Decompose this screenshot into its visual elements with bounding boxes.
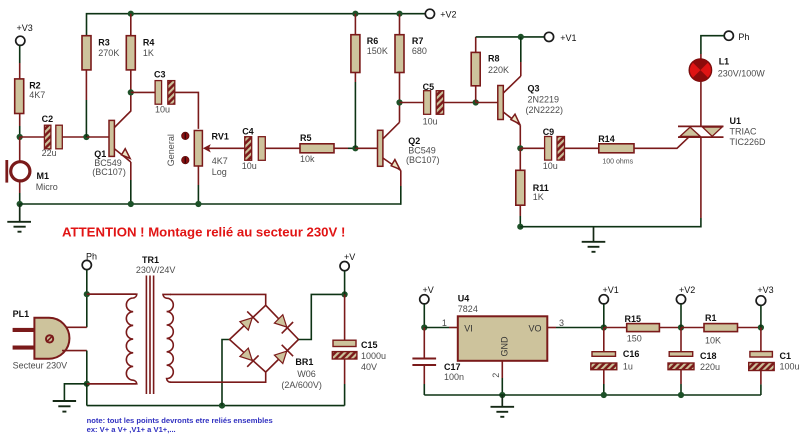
junction node G Q3e/C9/R11 [517,145,523,151]
svg-text:1: 1 [442,318,447,328]
svg-text:(BC107): (BC107) [92,167,126,177]
wire to mains ground [64,384,86,401]
capacitor C4 10u [242,126,265,171]
wire TR1 primary bottom [87,383,136,385]
transformer TR1 core [146,276,153,395]
resistor R1 10K [681,313,761,346]
svg-text:Q3: Q3 [528,83,540,93]
wire U4 VO to +V1 [547,327,604,329]
transformer TR1 secondary coil [163,294,173,382]
wire U4 pin2 to ground [501,361,503,395]
capacitor C5 10u [423,82,444,127]
wire node B to Q1 base [86,136,109,138]
regulator U4 7824 [458,294,548,361]
wire R11 to bottom rail [519,205,521,227]
wire bus to R7 [399,14,401,35]
wire +V to U4 VI [424,327,458,329]
transformer TR1 primary coil [87,294,137,384]
wire bus to R4 [130,14,132,36]
wire +V3 to R2 [19,45,21,79]
resistor R5 10k [300,133,334,164]
svg-text:General: General [166,134,176,166]
wire R2 to node A [19,114,21,138]
capacitor C3 10u [154,70,175,115]
junction bus/R6 [352,11,358,17]
svg-text:VI: VI [464,324,473,334]
wire node E to C5 [400,102,424,104]
svg-text:TRIAC: TRIAC [730,127,758,137]
svg-text:C9: C9 [543,127,555,137]
ground mains [53,401,76,412]
svg-text:+V2: +V2 [440,9,456,19]
junction +V1/Q3 collector [518,34,524,40]
wire +V1 line [476,36,545,38]
resistor R4 1K [126,36,154,70]
wire R8 top pin [475,37,477,53]
junction bottom rail/R11 [517,224,523,230]
svg-text:U4: U4 [458,294,470,304]
capacitor C2 22u [42,114,63,158]
wire Q3 collector [520,37,522,76]
junction rail/C16 [601,392,607,398]
wire R6 to node D [354,73,356,149]
svg-text:BR1: BR1 [295,357,313,367]
wire Q2 emitter to rail [400,171,402,205]
wire R14 to triac gate [634,137,689,148]
wire +V2 top bus [87,14,426,36]
svg-text:10k: 10k [300,154,315,164]
svg-text:Ph: Ph [86,252,97,262]
svg-text:Log: Log [212,167,227,177]
svg-text:+V1: +V1 [560,33,576,43]
svg-text:+V3: +V3 [757,285,773,295]
wire node A to C2 [20,136,45,138]
svg-text:2N2219: 2N2219 [528,94,560,104]
wire emitter ground rail [20,203,401,205]
transistor Q2 BC549 [378,122,440,170]
svg-text:Ph: Ph [738,32,749,42]
svg-text:C16: C16 [623,349,640,359]
svg-text:+V1: +V1 [603,285,619,295]
wire bottom rail left section [87,405,345,407]
svg-text:10K: 10K [705,335,721,345]
bridge rectifier BR1 W06 [230,305,322,390]
node +V1 terminal bottom [599,285,619,328]
wire Ph to lamp [701,36,724,60]
svg-text:1u: 1u [623,361,633,371]
junction Ph/TR1 primary [84,291,90,297]
junction node A R2/C2/M1 [17,134,23,140]
svg-text:VO: VO [529,324,542,334]
svg-text:R3: R3 [98,37,110,47]
svg-text:PL1: PL1 [13,309,30,319]
svg-text:L1: L1 [719,57,730,67]
svg-text:230V/24V: 230V/24V [136,265,176,275]
ground center [582,227,606,252]
svg-text:10u: 10u [543,161,558,171]
node +V terminal right [420,285,434,304]
wire C3 to RV1 [175,92,199,128]
svg-text:+V2: +V2 [679,285,695,295]
svg-text:+V: +V [344,252,355,262]
svg-text:TIC226D: TIC226D [730,137,767,147]
wire node D to Q2 base [355,147,377,149]
wire Q1 emitter to rail [130,162,132,204]
wire R7 to Q2 collector [399,73,401,123]
svg-text:10u: 10u [242,161,257,171]
wire +V terminal down [423,304,425,328]
svg-text:C2: C2 [42,114,54,124]
wire C5 to node F [444,102,476,104]
wire bus to R6 [354,14,356,35]
transistor Q1 BC549 [92,111,131,177]
svg-text:ATTENTION ! Montage relié au s: ATTENTION ! Montage relié au secteur 230… [62,224,345,239]
svg-text:7824: 7824 [458,304,478,314]
wire PL1 bottom pin [62,351,87,384]
junction +V3 node [758,324,764,330]
junction rail/pin2 [499,392,505,398]
microphone M1 [7,160,58,192]
resistor R8 220K [471,52,509,85]
wire node C to C3 [131,91,155,93]
junction rail left [17,201,23,207]
svg-text:C5: C5 [423,82,435,92]
junction bus/R7 [396,11,402,17]
resistor R15 150 [604,314,681,344]
svg-text:+V: +V [423,285,434,295]
wire R4 to Q1 collector [130,70,132,112]
junction node E R7/Q2/C5 [396,99,402,105]
svg-text:10u: 10u [423,116,438,126]
svg-text:100u: 100u [780,362,800,372]
svg-text:W06: W06 [297,369,316,379]
ground left [7,204,31,232]
node +V3 terminal top-left [16,23,33,46]
wire R3 to node B [85,70,87,137]
junction rail/RV1 [195,201,201,207]
svg-text:1K: 1K [143,48,154,58]
node Ph terminal mains [82,252,97,270]
svg-text:R2: R2 [29,81,41,91]
wire R8 to node F [475,86,477,103]
junction node D R5/R6/Q2-base [352,145,358,151]
junction +V2 node [678,324,684,330]
svg-text:BC549: BC549 [408,146,436,156]
node +V2 terminal [425,9,456,19]
capacitor C1 100u [749,328,800,396]
svg-text:R8: R8 [488,53,500,63]
wire C4 to R5 [265,147,300,149]
wire TR1 secondary top to BR1 [170,294,266,305]
wire bridge minus to rail [222,340,230,406]
transformer TR1 labels [136,255,176,275]
svg-text:C17: C17 [444,362,461,372]
junction +V node left [342,291,348,297]
svg-text:220K: 220K [488,65,509,75]
lamp L1 230V/100W [689,57,765,82]
svg-text:GND: GND [500,336,510,357]
junction mains return [84,381,90,387]
svg-text:(BC107): (BC107) [406,155,440,165]
resistor R7 680 [395,35,427,73]
svg-text:1000u: 1000u [361,351,386,361]
svg-text:R4: R4 [143,37,155,47]
svg-text:R6: R6 [367,36,379,46]
svg-text:22u: 22u [42,148,57,158]
junction node C R4/C3/Q1 [128,89,134,95]
svg-text:(2A/600V): (2A/600V) [281,380,322,390]
wire RV1 to rail [197,165,199,204]
capacitor C15 1000u 40V [332,294,386,405]
svg-text:(2N2222): (2N2222) [526,105,564,115]
svg-text:R14: R14 [598,134,615,144]
wire Q3 emitter to node G [519,125,521,148]
transistor Q3 2N2219 [498,76,563,125]
svg-text:3: 3 [559,318,564,328]
node +V terminal left [340,252,355,271]
svg-text:4K7: 4K7 [212,156,228,166]
wire bridge plus to +V node [299,294,345,339]
svg-text:note: tout les points devronts: note: tout les points devronts etre reli… [87,416,273,425]
wire node A to M1 [19,137,21,162]
wire bottom rail to triac [520,226,701,228]
svg-text:1K: 1K [533,192,544,202]
junction bus/R4 [128,11,134,17]
svg-text:10u: 10u [155,105,170,115]
triac U1 TIC226D [678,116,766,147]
svg-text:40V: 40V [361,362,377,372]
resistor R11 1K [516,170,549,205]
svg-text:C18: C18 [700,351,717,361]
wire M1 to ground rail [19,181,21,204]
wire node F to Q3 base [476,102,498,104]
junction node F C5/R8/Q3-base [473,99,479,105]
wire PL1 top pin [62,326,87,328]
wire junction to bottom rail [86,384,88,406]
junction rail/Q1 emitter [128,201,134,207]
svg-text:ex: V+ a V+ ,V1+ a V1+,...: ex: V+ a V+ ,V1+ a V1+,... [87,425,176,434]
wire C2 to node B [62,136,86,138]
svg-text:C15: C15 [361,340,378,350]
wire +V terminal to junction [344,271,346,295]
svg-text:R1: R1 [705,313,717,323]
resistor R2 4K7 [15,79,46,114]
svg-text:+V3: +V3 [17,23,33,33]
resistor R6 150K [351,35,388,73]
wire Ph down to PL1 [86,270,88,328]
junction rail/C18 [678,392,684,398]
svg-text:C3: C3 [154,70,166,80]
capacitor C18 220u [668,328,720,396]
svg-text:220u: 220u [700,362,720,372]
wire bottom rail right section [424,394,761,396]
node +V3 terminal bottom [756,285,774,328]
potentiometer RV1 4K7 Log [166,131,245,177]
svg-text:270K: 270K [98,48,119,58]
junction node B C2/R3/Q1-base [83,134,89,140]
svg-text:680: 680 [412,46,427,56]
mains plug PL1 [13,309,70,371]
svg-text:TR1: TR1 [142,255,159,265]
wire R5 to node D [334,147,355,149]
svg-text:R15: R15 [625,314,642,324]
svg-text:100n: 100n [444,372,464,382]
wire triac MT1 to rail [700,137,702,227]
svg-text:M1: M1 [37,171,50,181]
wire TR1 secondary bottom to BR1 [170,372,266,382]
junction rail/bridge minus [219,403,225,409]
svg-text:230V/100W: 230V/100W [718,69,766,79]
ground U4 [491,395,515,417]
junction +V/C17/U4 [421,324,427,330]
svg-text:100 ohms: 100 ohms [602,159,633,166]
node +V1 terminal [544,32,576,43]
junction +V1 node [601,324,607,330]
wire junction to TR1 primary top [87,293,136,295]
svg-text:Secteur 230V: Secteur 230V [13,361,68,371]
svg-text:150: 150 [627,334,642,344]
svg-text:RV1: RV1 [212,131,229,141]
svg-text:150K: 150K [367,46,388,56]
wire node G to C9 [520,147,544,149]
svg-text:2: 2 [491,373,501,378]
resistor R3 270K [82,36,119,70]
svg-text:C1: C1 [780,351,792,361]
capacitor C16 1u [591,328,640,396]
svg-text:U1: U1 [730,116,742,126]
svg-text:R7: R7 [412,36,424,46]
node +V2 terminal bottom [676,285,695,328]
wire C9 to R14 [565,147,599,149]
capacitor C9 10u [543,127,565,171]
svg-text:Micro: Micro [36,182,58,192]
node Ph terminal top [724,31,749,42]
capacitor C17 100n [412,328,464,396]
svg-text:4K7: 4K7 [29,90,45,100]
svg-text:R5: R5 [300,133,312,143]
wire R11 to node G [519,148,521,170]
svg-text:C4: C4 [242,126,254,136]
resistor R14 100ohms [598,134,634,165]
wire lamp to triac [700,81,702,126]
note text [87,416,273,434]
